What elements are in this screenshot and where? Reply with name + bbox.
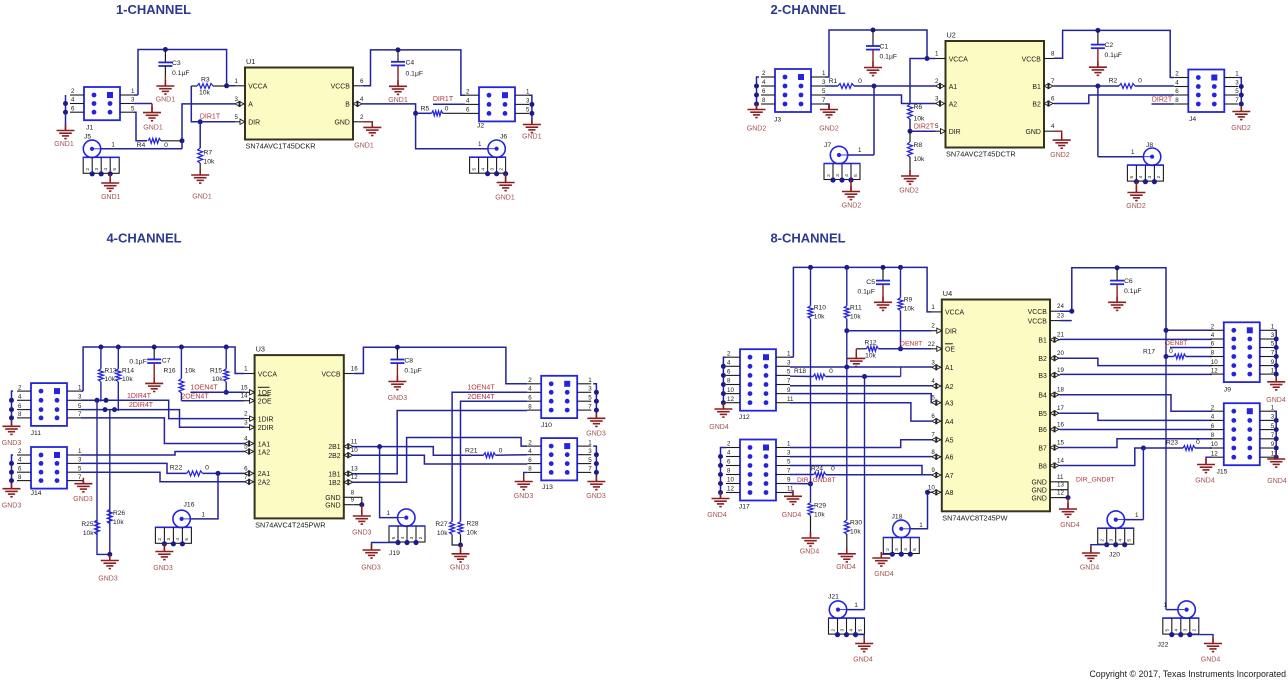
svg-text:GND3: GND3 xyxy=(73,496,93,503)
svg-text:2: 2 xyxy=(1100,539,1106,542)
svg-text:12: 12 xyxy=(1057,490,1064,497)
svg-text:J20: J20 xyxy=(1109,552,1120,559)
svg-text:2: 2 xyxy=(498,168,504,171)
svg-text:GND4: GND4 xyxy=(709,424,729,431)
svg-text:1: 1 xyxy=(822,70,826,77)
svg-text:0: 0 xyxy=(499,447,503,454)
svg-text:10k: 10k xyxy=(204,159,216,166)
svg-text:B: B xyxy=(345,102,350,109)
svg-text:8: 8 xyxy=(18,411,22,418)
svg-text:R21: R21 xyxy=(465,447,478,454)
svg-text:GND2: GND2 xyxy=(747,126,767,133)
svg-text:R26: R26 xyxy=(113,510,125,517)
svg-text:J9: J9 xyxy=(1224,387,1231,394)
svg-text:1B2: 1B2 xyxy=(328,480,340,487)
svg-text:10k: 10k xyxy=(437,530,448,537)
svg-text:0.1µF: 0.1µF xyxy=(1105,52,1123,59)
svg-text:R24: R24 xyxy=(811,466,823,473)
svg-text:8: 8 xyxy=(1175,97,1179,104)
svg-text:GND1: GND1 xyxy=(522,133,542,140)
svg-text:B2: B2 xyxy=(1038,356,1047,363)
svg-text:17: 17 xyxy=(1057,405,1064,412)
svg-text:C5: C5 xyxy=(866,279,875,286)
svg-text:2: 2 xyxy=(466,88,470,95)
svg-text:11: 11 xyxy=(1057,474,1064,481)
svg-text:1: 1 xyxy=(1271,324,1275,331)
svg-text:R30: R30 xyxy=(850,520,862,527)
svg-text:8: 8 xyxy=(931,449,935,456)
svg-text:6: 6 xyxy=(18,465,22,472)
svg-text:8: 8 xyxy=(1211,350,1215,357)
svg-text:J10: J10 xyxy=(541,422,552,429)
svg-text:6: 6 xyxy=(762,88,766,95)
svg-text:DIR: DIR xyxy=(248,120,260,127)
svg-text:GND4: GND4 xyxy=(853,657,873,664)
svg-text:1: 1 xyxy=(1164,602,1168,609)
svg-text:10: 10 xyxy=(727,387,734,394)
svg-text:2: 2 xyxy=(528,439,532,446)
svg-text:1OEN4T: 1OEN4T xyxy=(467,384,495,391)
svg-text:GND4: GND4 xyxy=(874,571,894,578)
svg-text:GND2: GND2 xyxy=(899,187,919,194)
svg-text:15: 15 xyxy=(241,384,248,391)
svg-text:C2: C2 xyxy=(1105,42,1114,49)
svg-text:10k: 10k xyxy=(904,306,915,313)
svg-text:8: 8 xyxy=(727,468,731,475)
svg-text:7: 7 xyxy=(588,403,592,410)
svg-text:J13: J13 xyxy=(542,484,553,491)
svg-text:2: 2 xyxy=(1211,324,1215,331)
svg-text:4: 4 xyxy=(931,378,935,385)
svg-text:3: 3 xyxy=(835,174,841,177)
svg-text:10k: 10k xyxy=(850,314,861,321)
svg-text:GND3: GND3 xyxy=(361,565,381,572)
svg-text:10: 10 xyxy=(727,477,734,484)
svg-text:GND4: GND4 xyxy=(836,564,856,571)
svg-text:VCCA: VCCA xyxy=(945,310,965,317)
svg-text:10: 10 xyxy=(1211,441,1218,448)
svg-text:C1: C1 xyxy=(880,44,889,51)
svg-text:5: 5 xyxy=(526,107,530,114)
svg-text:R1: R1 xyxy=(829,78,838,85)
svg-text:GND1: GND1 xyxy=(192,194,212,201)
svg-text:4: 4 xyxy=(727,360,731,367)
svg-text:A7: A7 xyxy=(945,473,954,480)
svg-text:10k: 10k xyxy=(185,368,196,375)
svg-text:6: 6 xyxy=(1175,88,1179,95)
svg-text:R18: R18 xyxy=(794,368,806,375)
svg-text:B7: B7 xyxy=(1038,445,1047,452)
svg-text:1: 1 xyxy=(931,304,935,311)
svg-text:2: 2 xyxy=(1211,404,1215,411)
svg-text:2A1: 2A1 xyxy=(258,471,270,478)
svg-text:A1: A1 xyxy=(949,84,958,91)
svg-text:0: 0 xyxy=(831,466,835,473)
svg-text:1B1: 1B1 xyxy=(328,472,340,479)
svg-text:B4: B4 xyxy=(1038,393,1047,400)
svg-text:8: 8 xyxy=(528,466,532,473)
svg-text:VCCB: VCCB xyxy=(1028,309,1048,316)
svg-text:1: 1 xyxy=(588,377,592,384)
svg-text:12: 12 xyxy=(1211,367,1218,374)
svg-text:GND4: GND4 xyxy=(707,512,727,519)
svg-text:10: 10 xyxy=(351,447,358,454)
svg-text:10k: 10k xyxy=(105,376,116,383)
svg-text:5: 5 xyxy=(853,174,859,177)
svg-text:2: 2 xyxy=(85,168,91,171)
svg-text:4: 4 xyxy=(18,457,22,464)
svg-text:GND3: GND3 xyxy=(153,565,173,572)
svg-text:6: 6 xyxy=(71,105,75,112)
svg-text:DIR: DIR xyxy=(949,129,961,136)
svg-text:A3: A3 xyxy=(945,400,954,407)
svg-text:18: 18 xyxy=(1057,387,1064,394)
svg-text:GND: GND xyxy=(1031,488,1046,495)
svg-text:10k: 10k xyxy=(814,512,825,519)
svg-text:3: 3 xyxy=(1109,539,1115,542)
svg-text:GND4: GND4 xyxy=(800,549,820,556)
svg-text:20: 20 xyxy=(1057,350,1064,357)
svg-text:4: 4 xyxy=(175,538,181,541)
svg-text:10: 10 xyxy=(1211,359,1218,366)
svg-text:3: 3 xyxy=(1147,175,1153,178)
svg-text:2OEN4T: 2OEN4T xyxy=(467,394,495,401)
svg-text:5: 5 xyxy=(112,168,118,171)
svg-text:4: 4 xyxy=(762,79,766,86)
svg-text:7: 7 xyxy=(931,432,935,439)
svg-text:5: 5 xyxy=(184,538,190,541)
svg-text:1: 1 xyxy=(244,366,248,373)
svg-text:13: 13 xyxy=(1057,482,1064,489)
svg-text:21: 21 xyxy=(1057,332,1064,339)
svg-text:GND3: GND3 xyxy=(2,440,22,447)
svg-text:GND3: GND3 xyxy=(352,530,372,537)
svg-text:4: 4 xyxy=(1138,175,1144,178)
svg-text:9: 9 xyxy=(787,387,791,394)
svg-text:1A2: 1A2 xyxy=(258,449,270,456)
svg-text:R13: R13 xyxy=(105,368,117,375)
svg-text:1DIR4T: 1DIR4T xyxy=(127,393,152,400)
svg-text:GND1: GND1 xyxy=(388,97,408,104)
svg-text:3: 3 xyxy=(839,628,845,631)
svg-text:1: 1 xyxy=(854,602,858,609)
svg-text:4: 4 xyxy=(528,386,532,393)
svg-text:3: 3 xyxy=(588,386,592,393)
svg-text:2: 2 xyxy=(885,548,891,551)
svg-text:SN74AVC1T45DCKR: SN74AVC1T45DCKR xyxy=(246,142,316,151)
svg-text:U1: U1 xyxy=(246,57,255,66)
svg-text:A5: A5 xyxy=(945,438,954,445)
svg-text:GND1: GND1 xyxy=(143,125,163,132)
svg-text:0.1µF: 0.1µF xyxy=(406,71,424,78)
svg-text:0: 0 xyxy=(205,464,209,471)
svg-text:5: 5 xyxy=(857,628,863,631)
svg-text:10k: 10k xyxy=(83,530,94,537)
svg-text:3: 3 xyxy=(409,536,415,539)
svg-text:B1: B1 xyxy=(1038,338,1047,345)
svg-text:4: 4 xyxy=(1174,628,1180,631)
svg-text:2B2: 2B2 xyxy=(328,453,340,460)
svg-text:6: 6 xyxy=(727,369,731,376)
svg-text:R10: R10 xyxy=(814,305,826,312)
svg-text:GND2: GND2 xyxy=(1126,203,1146,210)
svg-text:2: 2 xyxy=(1175,71,1179,78)
svg-text:2: 2 xyxy=(360,114,364,121)
svg-text:2DIR: 2DIR xyxy=(258,425,274,432)
svg-text:1: 1 xyxy=(919,522,923,529)
svg-text:1DIR: 1DIR xyxy=(258,416,274,423)
svg-text:J18: J18 xyxy=(892,514,903,521)
svg-text:0.1µF: 0.1µF xyxy=(172,70,190,77)
svg-text:7: 7 xyxy=(588,466,592,473)
svg-text:GND: GND xyxy=(1025,129,1040,136)
svg-text:J15: J15 xyxy=(1217,469,1228,476)
svg-text:8: 8 xyxy=(1211,432,1215,439)
svg-text:3: 3 xyxy=(894,548,900,551)
svg-text:1: 1 xyxy=(787,350,791,357)
svg-text:2: 2 xyxy=(528,377,532,384)
svg-text:4: 4 xyxy=(103,168,109,171)
svg-text:2OEN4T: 2OEN4T xyxy=(181,394,209,401)
svg-text:R23: R23 xyxy=(1166,440,1178,447)
svg-text:5: 5 xyxy=(1235,88,1239,95)
svg-text:B5: B5 xyxy=(1038,411,1047,418)
svg-text:GND2: GND2 xyxy=(842,203,862,210)
svg-text:U4: U4 xyxy=(943,289,952,298)
svg-text:2: 2 xyxy=(418,536,424,539)
svg-text:10k: 10k xyxy=(122,376,133,383)
svg-text:VCCB: VCCB xyxy=(1022,56,1042,63)
svg-text:4: 4 xyxy=(1118,539,1124,542)
svg-text:9: 9 xyxy=(931,467,935,474)
svg-text:4: 4 xyxy=(1051,123,1055,130)
svg-text:6: 6 xyxy=(466,107,470,114)
svg-text:5: 5 xyxy=(78,403,82,410)
svg-text:1: 1 xyxy=(526,88,530,95)
svg-text:3: 3 xyxy=(935,96,939,103)
svg-text:R16: R16 xyxy=(164,368,176,375)
svg-text:5: 5 xyxy=(391,536,397,539)
svg-text:GND3: GND3 xyxy=(586,493,606,500)
svg-text:GND4: GND4 xyxy=(1195,478,1215,485)
svg-text:5: 5 xyxy=(471,168,477,171)
svg-text:1: 1 xyxy=(787,441,791,448)
svg-text:0.1µF: 0.1µF xyxy=(404,368,422,375)
svg-text:DIR1T: DIR1T xyxy=(200,114,221,121)
svg-text:J21: J21 xyxy=(828,594,839,601)
svg-text:DIR2T: DIR2T xyxy=(914,124,935,131)
svg-text:4: 4 xyxy=(360,96,364,103)
svg-text:1: 1 xyxy=(387,510,391,517)
svg-text:8: 8 xyxy=(18,474,22,481)
svg-text:GND3: GND3 xyxy=(98,576,118,583)
svg-text:GND4: GND4 xyxy=(1060,522,1080,529)
svg-text:14: 14 xyxy=(1057,458,1064,465)
svg-text:A: A xyxy=(248,102,253,109)
svg-text:J12: J12 xyxy=(739,414,750,421)
svg-text:3: 3 xyxy=(78,457,82,464)
svg-text:1: 1 xyxy=(78,448,82,455)
svg-text:A2: A2 xyxy=(949,101,958,108)
svg-text:5: 5 xyxy=(1127,539,1133,542)
svg-text:SN74AVC2T45DCTR: SN74AVC2T45DCTR xyxy=(946,150,1016,159)
svg-text:R14: R14 xyxy=(122,368,134,375)
svg-text:0.1µF: 0.1µF xyxy=(857,289,875,296)
svg-text:B6: B6 xyxy=(1038,427,1047,434)
svg-text:1: 1 xyxy=(1131,149,1135,156)
svg-text:1: 1 xyxy=(131,88,135,95)
svg-text:J17: J17 xyxy=(739,504,750,511)
svg-text:2: 2 xyxy=(727,441,731,448)
svg-text:3: 3 xyxy=(489,168,495,171)
svg-text:5: 5 xyxy=(1129,175,1135,178)
svg-text:GND4: GND4 xyxy=(782,512,802,519)
svg-text:2-CHANNEL: 2-CHANNEL xyxy=(770,2,845,17)
svg-text:4-CHANNEL: 4-CHANNEL xyxy=(106,230,181,245)
svg-text:5: 5 xyxy=(822,88,826,95)
svg-text:10k: 10k xyxy=(850,529,861,536)
svg-text:3: 3 xyxy=(235,96,239,103)
svg-text:GND: GND xyxy=(334,120,349,127)
svg-text:R28: R28 xyxy=(467,521,479,528)
svg-text:VCCB: VCCB xyxy=(331,84,351,91)
svg-text:1: 1 xyxy=(1135,512,1139,519)
svg-text:1: 1 xyxy=(588,439,592,446)
svg-text:8: 8 xyxy=(528,403,532,410)
svg-text:4: 4 xyxy=(1211,414,1215,421)
svg-text:6: 6 xyxy=(528,457,532,464)
svg-text:14: 14 xyxy=(241,393,248,400)
svg-text:GND: GND xyxy=(325,495,340,502)
svg-text:R4: R4 xyxy=(137,142,146,149)
svg-text:J11: J11 xyxy=(31,430,42,437)
svg-text:10k: 10k xyxy=(814,314,825,321)
svg-text:J6: J6 xyxy=(500,134,507,141)
svg-text:J19: J19 xyxy=(389,550,400,557)
svg-text:22: 22 xyxy=(928,341,935,348)
svg-text:5: 5 xyxy=(131,105,135,112)
svg-text:R6: R6 xyxy=(914,104,923,111)
svg-text:4: 4 xyxy=(1211,332,1215,339)
svg-text:4: 4 xyxy=(528,448,532,455)
svg-text:GND1: GND1 xyxy=(54,141,74,148)
svg-text:1: 1 xyxy=(235,78,239,85)
svg-text:3: 3 xyxy=(131,97,135,104)
svg-text:C6: C6 xyxy=(1124,278,1133,285)
svg-text:8: 8 xyxy=(351,489,355,496)
svg-text:6: 6 xyxy=(1051,96,1055,103)
svg-text:5: 5 xyxy=(1165,628,1171,631)
svg-text:2: 2 xyxy=(18,384,22,391)
svg-text:2: 2 xyxy=(762,70,766,77)
svg-text:0: 0 xyxy=(445,106,449,113)
svg-text:6: 6 xyxy=(360,78,364,85)
svg-text:GND4: GND4 xyxy=(1080,565,1100,572)
svg-text:GND1: GND1 xyxy=(156,97,176,104)
svg-text:9: 9 xyxy=(787,477,791,484)
svg-text:A2: A2 xyxy=(945,384,954,391)
svg-text:J22: J22 xyxy=(1158,642,1169,649)
svg-text:1-CHANNEL: 1-CHANNEL xyxy=(116,2,191,17)
svg-text:J14: J14 xyxy=(31,490,42,497)
svg-text:2: 2 xyxy=(18,448,22,455)
svg-text:VCCA: VCCA xyxy=(949,56,969,63)
svg-text:0: 0 xyxy=(1196,439,1200,446)
svg-text:3: 3 xyxy=(244,419,248,426)
svg-text:B1: B1 xyxy=(1032,84,1041,91)
svg-text:R8: R8 xyxy=(914,142,923,149)
svg-text:3: 3 xyxy=(787,450,791,457)
svg-text:SN74AVC8T245PW: SN74AVC8T245PW xyxy=(942,514,1007,523)
svg-text:GND3: GND3 xyxy=(388,395,408,402)
svg-text:2: 2 xyxy=(1192,628,1198,631)
svg-text:3: 3 xyxy=(526,98,530,105)
svg-text:GND1: GND1 xyxy=(354,142,374,149)
svg-text:5: 5 xyxy=(235,114,239,121)
svg-text:SN74AVC4T245PWR: SN74AVC4T245PWR xyxy=(255,521,325,530)
svg-text:6: 6 xyxy=(244,465,248,472)
svg-text:7: 7 xyxy=(787,378,791,385)
svg-text:10k: 10k xyxy=(212,376,223,383)
svg-text:GND: GND xyxy=(325,503,340,510)
svg-text:4: 4 xyxy=(1175,80,1179,87)
svg-text:7: 7 xyxy=(1235,97,1239,104)
svg-text:7: 7 xyxy=(78,411,82,418)
svg-text:1A1: 1A1 xyxy=(258,441,270,448)
svg-text:B8: B8 xyxy=(1038,463,1047,470)
svg-text:12: 12 xyxy=(1211,450,1218,457)
svg-text:DIR1T: DIR1T xyxy=(433,96,454,103)
svg-text:24: 24 xyxy=(1057,303,1064,310)
svg-text:3: 3 xyxy=(787,360,791,367)
svg-text:A4: A4 xyxy=(945,419,954,426)
svg-text:GND2: GND2 xyxy=(819,126,839,133)
svg-text:GND3: GND3 xyxy=(450,565,470,572)
svg-text:6: 6 xyxy=(1211,423,1215,430)
svg-text:2: 2 xyxy=(157,538,163,541)
svg-text:DIR2T: DIR2T xyxy=(1152,97,1173,104)
svg-text:C8: C8 xyxy=(404,358,413,365)
svg-text:0: 0 xyxy=(1138,78,1142,85)
svg-text:5: 5 xyxy=(935,123,939,130)
svg-text:OE: OE xyxy=(945,347,955,354)
svg-text:GND: GND xyxy=(1031,495,1046,502)
svg-text:GND3: GND3 xyxy=(2,503,22,510)
svg-text:1: 1 xyxy=(478,141,482,148)
svg-text:5: 5 xyxy=(787,369,791,376)
svg-text:VCCB: VCCB xyxy=(321,371,341,378)
svg-text:0.1µF: 0.1µF xyxy=(129,359,147,366)
svg-text:J4: J4 xyxy=(1189,116,1196,123)
svg-text:DIR: DIR xyxy=(945,329,957,336)
svg-text:2: 2 xyxy=(1156,175,1162,178)
svg-text:R3: R3 xyxy=(201,77,210,84)
svg-text:J1: J1 xyxy=(86,125,93,132)
svg-text:C3: C3 xyxy=(172,60,181,67)
svg-text:1: 1 xyxy=(1271,404,1275,411)
svg-text:R7: R7 xyxy=(204,150,213,157)
svg-text:U3: U3 xyxy=(256,345,265,354)
svg-text:12: 12 xyxy=(727,486,734,493)
svg-text:J8: J8 xyxy=(1146,142,1153,149)
svg-text:5: 5 xyxy=(787,459,791,466)
svg-text:2: 2 xyxy=(244,411,248,418)
svg-text:GND4: GND4 xyxy=(1201,657,1221,664)
svg-text:R12: R12 xyxy=(864,340,876,347)
svg-text:1: 1 xyxy=(1235,71,1239,78)
svg-text:10k: 10k xyxy=(914,156,926,163)
svg-text:A6: A6 xyxy=(945,455,954,462)
